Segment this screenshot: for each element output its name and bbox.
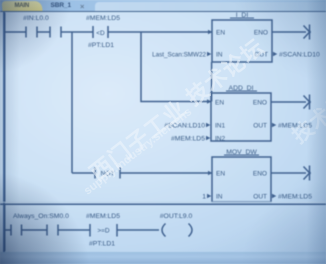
I_DI title bbox=[236, 12, 249, 19]
label #MEM:LD5 (compare2 top) bbox=[86, 213, 120, 220]
label NOT bbox=[101, 171, 115, 178]
label #MEM:LD5 (ADD_DI out) bbox=[278, 123, 312, 130]
label constant 1 (MOV_DW in) bbox=[202, 194, 206, 201]
svg-text:MOV_DW: MOV_DW bbox=[226, 149, 257, 156]
wire compare to coil bbox=[117, 229, 159, 231]
I_DI pin EN bbox=[216, 30, 225, 37]
svg-text:Always_On:SM0.0: Always_On:SM0.0 bbox=[13, 213, 69, 220]
left power rail network 1 bbox=[4, 13, 6, 202]
label #SCAN:LD10 (ADD_DI in1) bbox=[164, 123, 205, 130]
label lessD operator bbox=[96, 30, 105, 37]
label #MEM:LD5 (ADD_DI in2) bbox=[171, 136, 205, 143]
arrow into ADD_DI EN bbox=[207, 99, 211, 103]
arrow into MOV_DW EN bbox=[208, 171, 212, 175]
arrow out of I_DI OUT bbox=[273, 52, 277, 56]
label #OUT:L9.0 (coil) bbox=[160, 213, 193, 220]
wire rail2 to contact Always_On bbox=[5, 229, 11, 231]
EN rail segment below I_DI box to ADD_DI EN bbox=[211, 62, 213, 102]
svg-text:OUT: OUT bbox=[253, 123, 267, 130]
svg-text:#MEM:LD5: #MEM:LD5 bbox=[86, 15, 120, 22]
NOT contact bbox=[95, 168, 120, 179]
coil #OUT:L9.0 bbox=[162, 224, 192, 237]
wire to contact 2 of network 2 bbox=[22, 229, 48, 231]
node B branch wire down and right to ADD_DI EN bbox=[141, 32, 211, 102]
label #PT:LD1 (compare2 bottom) bbox=[89, 241, 115, 248]
arrow out of MOV_DW OUT bbox=[272, 194, 276, 198]
svg-text:EN: EN bbox=[216, 171, 225, 178]
ADD_DI pin IN2 bbox=[215, 136, 226, 143]
arrow into I_DI IN bbox=[207, 52, 211, 56]
svg-text:IN1: IN1 bbox=[215, 123, 226, 130]
MOV_DW pin EN bbox=[216, 171, 225, 178]
svg-text:IN2: IN2 bbox=[215, 136, 226, 143]
op block I_DI box bbox=[212, 20, 272, 62]
svg-text:EN: EN bbox=[215, 100, 224, 107]
ADD_DI title underline bbox=[226, 90, 257, 92]
ADD_DI ENO output wire with arrow bbox=[271, 95, 311, 110]
MOV_DW title bbox=[226, 149, 257, 156]
svg-text:#MEM:LD5: #MEM:LD5 bbox=[278, 194, 312, 201]
wire contact2 to compare contact, through node A bbox=[61, 31, 93, 33]
svg-text:#IN:L0.0: #IN:L0.0 bbox=[23, 15, 49, 22]
arrow into MOV_DW IN bbox=[207, 194, 211, 198]
svg-text:#MEM:LD5: #MEM:LD5 bbox=[86, 213, 120, 220]
arrow into ADD_DI IN1 bbox=[206, 123, 210, 127]
contact 2 (unlabelled) bbox=[50, 27, 61, 38]
node A branch wire down to NOT rung bbox=[71, 32, 73, 173]
wire compare to I_DI EN, through node B bbox=[108, 31, 212, 33]
svg-text:>=D: >=D bbox=[97, 228, 110, 235]
svg-text:#PT:LD1: #PT:LD1 bbox=[89, 241, 115, 248]
wire rail to contact I1 bbox=[5, 31, 26, 33]
I_DI pin IN bbox=[216, 52, 223, 59]
MOV_DW pin ENO bbox=[253, 171, 267, 178]
wire to compare contact network2 bbox=[58, 229, 90, 231]
svg-text:1: 1 bbox=[202, 194, 206, 201]
arrow into ADD_DI IN2 bbox=[206, 136, 210, 140]
left power rail network 2 bbox=[4, 205, 6, 251]
svg-text:#MEM:LD5: #MEM:LD5 bbox=[171, 136, 205, 143]
wire branch A to NOT contact bbox=[72, 172, 95, 174]
compare contact geD network2 bbox=[90, 224, 117, 237]
svg-text:EN: EN bbox=[216, 30, 225, 37]
svg-text:Last_Scan:SMW22: Last_Scan:SMW22 bbox=[152, 52, 206, 59]
I_DI pin ENO bbox=[254, 30, 268, 37]
contact Always_On:SM0.0 bbox=[11, 225, 22, 236]
svg-text:I_DI: I_DI bbox=[236, 12, 249, 19]
op block ADD_DI box bbox=[211, 93, 271, 141]
ADD_DI pin IN1 bbox=[215, 123, 226, 130]
I_DI ENO output wire with arrow bbox=[272, 25, 311, 40]
svg-text:OUT: OUT bbox=[253, 194, 267, 201]
label Last_Scan:SMW22 bbox=[152, 52, 206, 59]
svg-text:ENO: ENO bbox=[253, 100, 267, 107]
ADD_DI pin ENO bbox=[253, 100, 267, 107]
contact #IN:L0.0 bbox=[26, 27, 37, 38]
ADD_DI title bbox=[229, 85, 254, 92]
op block MOV_DW box bbox=[212, 157, 271, 202]
network2 contact 2 (unlabelled) bbox=[47, 225, 58, 236]
label #MEM:LD5 (compare1 top) bbox=[86, 15, 120, 22]
network separator groove bbox=[0, 202, 326, 204]
svg-text:#SCAN:LD10: #SCAN:LD10 bbox=[279, 52, 320, 59]
label #IN:L0.0 bbox=[23, 15, 49, 22]
MOV_DW pin IN bbox=[216, 194, 223, 201]
label geD operator bbox=[97, 228, 110, 235]
label #SCAN:LD10 (I_DI out) bbox=[279, 52, 320, 59]
svg-text:<D: <D bbox=[96, 30, 105, 37]
ADD_DI pin EN bbox=[215, 100, 224, 107]
label #MEM:LD5 (MOV_DW out) bbox=[278, 194, 312, 201]
arrow into I_DI EN bbox=[208, 30, 212, 34]
wire contact1 to contact2 bbox=[37, 31, 50, 33]
I_DI pin OUT bbox=[254, 52, 268, 59]
label Always_On:SM0.0 bbox=[13, 213, 69, 220]
ADD_DI pin OUT bbox=[253, 123, 267, 130]
MOV_DW pin OUT bbox=[253, 194, 267, 201]
compare contact LD5 lessD LD1 bbox=[93, 26, 108, 38]
svg-text:ADD_DI: ADD_DI bbox=[229, 85, 254, 92]
label #PT:LD1 (compare1 bottom) bbox=[88, 42, 114, 49]
svg-text:IN: IN bbox=[216, 194, 223, 201]
MOV_DW title underline bbox=[224, 154, 259, 156]
svg-text:ENO: ENO bbox=[253, 171, 267, 178]
I_DI title underline bbox=[230, 17, 254, 19]
arrow out of ADD_DI OUT bbox=[272, 123, 276, 127]
MOV_DW ENO output wire with arrow bbox=[271, 166, 311, 181]
svg-text:#PT:LD1: #PT:LD1 bbox=[88, 42, 114, 49]
wire NOT to MOV_DW EN bbox=[120, 172, 212, 174]
svg-text:#OUT:L9.0: #OUT:L9.0 bbox=[160, 213, 193, 220]
svg-text:ENO: ENO bbox=[254, 30, 268, 37]
